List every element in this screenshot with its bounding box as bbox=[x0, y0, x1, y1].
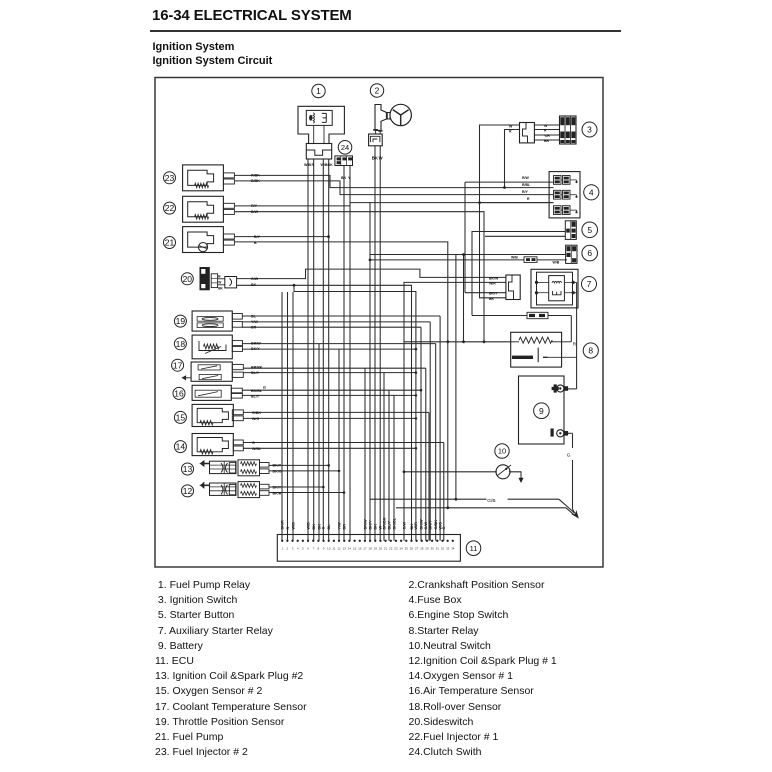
svg-text:G/BK: G/BK bbox=[434, 520, 438, 530]
svg-text:G/W: G/W bbox=[402, 521, 406, 529]
svg-text:G/W: G/W bbox=[424, 521, 428, 529]
svg-text:5: 5 bbox=[302, 547, 304, 551]
svg-text:W: W bbox=[379, 155, 383, 160]
svg-text:BK: BK bbox=[218, 286, 223, 290]
svg-text:BK/R: BK/R bbox=[273, 491, 282, 495]
svg-text:W/B: W/B bbox=[306, 522, 310, 530]
svg-text:13: 13 bbox=[343, 547, 347, 551]
svg-text:17: 17 bbox=[363, 547, 367, 551]
svg-text:BK/R: BK/R bbox=[280, 520, 284, 530]
svg-text:32: 32 bbox=[441, 547, 445, 551]
svg-text:BK/Y: BK/Y bbox=[489, 292, 498, 296]
svg-text:19: 19 bbox=[176, 316, 186, 326]
svg-text:Y/W: Y/W bbox=[251, 320, 258, 324]
svg-text:R/BL: R/BL bbox=[522, 183, 531, 187]
svg-text:BR: BR bbox=[544, 139, 550, 143]
svg-text:18: 18 bbox=[368, 547, 372, 551]
svg-text:BK: BK bbox=[328, 163, 334, 167]
svg-text:W/G: W/G bbox=[252, 417, 259, 421]
svg-text:G: G bbox=[252, 441, 255, 445]
svg-text:W: W bbox=[218, 280, 221, 284]
svg-text:29: 29 bbox=[425, 547, 429, 551]
svg-text:9: 9 bbox=[323, 547, 325, 551]
svg-text:26: 26 bbox=[410, 547, 414, 551]
svg-text:BK/Y: BK/Y bbox=[429, 520, 433, 530]
svg-text:R/Y: R/Y bbox=[522, 190, 529, 194]
svg-text:21: 21 bbox=[384, 547, 388, 551]
svg-text:BR/BK: BR/BK bbox=[382, 517, 386, 529]
svg-text:4: 4 bbox=[589, 187, 594, 197]
svg-text:9: 9 bbox=[539, 406, 544, 416]
svg-text:BL/Y: BL/Y bbox=[251, 394, 260, 398]
svg-text:W/R: W/R bbox=[489, 282, 496, 286]
svg-text:B: B bbox=[218, 275, 221, 279]
svg-text:22: 22 bbox=[165, 203, 175, 213]
svg-text:BR/W: BR/W bbox=[251, 342, 261, 346]
svg-text:14: 14 bbox=[176, 442, 186, 452]
svg-text:27: 27 bbox=[415, 547, 419, 551]
svg-text:R: R bbox=[573, 341, 577, 347]
svg-text:4: 4 bbox=[297, 547, 299, 551]
svg-text:R: R bbox=[509, 130, 512, 134]
svg-text:BL: BL bbox=[327, 524, 331, 530]
svg-text:W/BL: W/BL bbox=[252, 447, 262, 451]
svg-text:28: 28 bbox=[420, 547, 424, 551]
svg-text:11: 11 bbox=[470, 544, 478, 553]
svg-text:R/Y: R/Y bbox=[251, 204, 258, 208]
svg-text:BK: BK bbox=[410, 524, 414, 530]
svg-text:10: 10 bbox=[327, 547, 331, 551]
svg-text:BL: BL bbox=[251, 314, 257, 318]
svg-text:1: 1 bbox=[281, 547, 283, 551]
svg-text:7: 7 bbox=[587, 279, 592, 289]
svg-text:11: 11 bbox=[332, 547, 335, 551]
svg-text:G: G bbox=[567, 453, 571, 459]
svg-text:W/B: W/B bbox=[553, 261, 560, 265]
svg-text:20: 20 bbox=[379, 547, 383, 551]
svg-text:BK: BK bbox=[251, 283, 257, 287]
svg-text:G: G bbox=[442, 527, 446, 530]
svg-text:5: 5 bbox=[587, 225, 592, 235]
svg-text:8: 8 bbox=[588, 346, 593, 356]
svg-text:G/B: G/B bbox=[487, 498, 495, 504]
svg-text:BL/Y: BL/Y bbox=[387, 520, 391, 529]
svg-text:19: 19 bbox=[374, 547, 378, 551]
svg-text:23: 23 bbox=[394, 547, 398, 551]
svg-text:BR: BR bbox=[251, 326, 257, 330]
svg-text:BK/G: BK/G bbox=[273, 469, 282, 473]
svg-text:BK/BL: BK/BL bbox=[251, 389, 263, 393]
svg-text:BK/Y: BK/Y bbox=[273, 485, 282, 489]
svg-text:6: 6 bbox=[307, 547, 309, 551]
svg-text:12: 12 bbox=[183, 486, 193, 496]
svg-text:BK/BL: BK/BL bbox=[392, 517, 396, 529]
svg-text:BK/W: BK/W bbox=[489, 276, 499, 280]
svg-text:15: 15 bbox=[353, 547, 357, 551]
svg-text:Y/R: Y/R bbox=[544, 134, 550, 138]
svg-text:7: 7 bbox=[312, 547, 314, 551]
svg-text:Y: Y bbox=[348, 176, 351, 180]
svg-text:24: 24 bbox=[399, 547, 403, 551]
svg-text:BK: BK bbox=[372, 155, 378, 160]
svg-text:B: B bbox=[254, 241, 257, 245]
svg-text:B/W: B/W bbox=[251, 210, 259, 214]
svg-text:W/B: W/B bbox=[304, 163, 311, 167]
svg-text:G: G bbox=[322, 527, 326, 530]
svg-text:16: 16 bbox=[174, 388, 184, 398]
svg-text:21: 21 bbox=[165, 238, 175, 248]
svg-text:R: R bbox=[527, 197, 530, 201]
svg-text:2: 2 bbox=[375, 86, 380, 96]
svg-text:BK: BK bbox=[341, 176, 347, 180]
svg-text:BK/W: BK/W bbox=[419, 519, 423, 530]
svg-text:24: 24 bbox=[341, 143, 349, 152]
svg-text:10: 10 bbox=[498, 447, 506, 456]
svg-text:17: 17 bbox=[173, 360, 183, 370]
svg-text:15: 15 bbox=[176, 412, 186, 422]
svg-text:e: e bbox=[263, 385, 266, 391]
svg-text:R: R bbox=[312, 163, 315, 167]
svg-text:BR/BK: BR/BK bbox=[251, 365, 263, 369]
svg-text:R/BK: R/BK bbox=[251, 174, 260, 178]
svg-text:13: 13 bbox=[183, 464, 193, 474]
svg-text:B/BK: B/BK bbox=[251, 179, 260, 183]
svg-text:Y/W: Y/W bbox=[337, 522, 341, 530]
svg-text:BR: BR bbox=[342, 524, 346, 530]
svg-text:6: 6 bbox=[587, 248, 592, 258]
svg-text:3: 3 bbox=[587, 125, 592, 135]
svg-text:20: 20 bbox=[183, 274, 193, 284]
svg-text:12: 12 bbox=[337, 547, 341, 551]
svg-text:1: 1 bbox=[316, 86, 321, 96]
svg-text:34: 34 bbox=[451, 547, 455, 551]
svg-text:22: 22 bbox=[389, 547, 393, 551]
svg-text:BK/Y: BK/Y bbox=[368, 520, 372, 530]
svg-text:16: 16 bbox=[358, 547, 362, 551]
svg-text:BK: BK bbox=[489, 297, 495, 301]
svg-text:8: 8 bbox=[318, 547, 320, 551]
svg-text:G/W: G/W bbox=[251, 277, 259, 281]
svg-text:R/W: R/W bbox=[522, 176, 530, 180]
svg-text:BL/Y: BL/Y bbox=[251, 371, 260, 375]
svg-text:BR/W: BR/W bbox=[363, 519, 367, 530]
svg-text:BK: BK bbox=[373, 524, 377, 530]
svg-text:25: 25 bbox=[405, 547, 409, 551]
svg-text:BK: BK bbox=[312, 524, 316, 530]
svg-text:BK/Y: BK/Y bbox=[251, 347, 260, 351]
svg-text:18: 18 bbox=[176, 339, 186, 349]
svg-text:33: 33 bbox=[446, 547, 450, 551]
svg-text:31: 31 bbox=[436, 547, 440, 551]
svg-text:B/Y: B/Y bbox=[254, 235, 261, 239]
svg-text:G/BK: G/BK bbox=[252, 411, 261, 415]
svg-text:W/B: W/B bbox=[291, 522, 295, 530]
svg-text:BK/Y: BK/Y bbox=[273, 464, 282, 468]
svg-text:3: 3 bbox=[292, 547, 294, 551]
svg-text:30: 30 bbox=[430, 547, 434, 551]
svg-text:2: 2 bbox=[287, 547, 289, 551]
svg-text:R: R bbox=[286, 527, 290, 530]
svg-text:W/B: W/B bbox=[511, 256, 518, 260]
svg-text:23: 23 bbox=[165, 173, 175, 183]
svg-text:14: 14 bbox=[348, 547, 352, 551]
svg-text:W/R: W/R bbox=[414, 522, 418, 530]
